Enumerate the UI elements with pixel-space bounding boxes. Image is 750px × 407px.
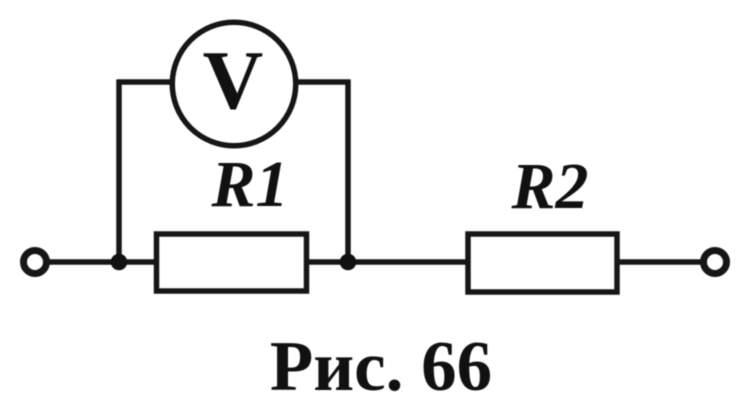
wire: R1 to R2 [306,259,469,265]
wire: top-right horizontal from voltmeter [290,79,350,85]
voltmeter U1 circle [172,22,296,146]
resistor R2 body [468,234,617,292]
wire: left terminal to R1 [49,259,157,265]
node: junction dot right (R1 right / voltmeter tap) [340,254,357,271]
resistor R1 body [157,234,307,291]
wire: R2 to right terminal [616,259,701,265]
wire: right vertical branch [345,80,351,263]
wire: top-left horizontal to voltmeter [117,79,180,85]
wire: left vertical branch [116,80,122,263]
svg-text:R2: R2 [510,150,588,223]
terminal: left input [24,251,47,274]
svg-text:V: V [203,34,264,127]
svg-text:R1: R1 [210,148,288,221]
node: junction dot left (R1 left / voltmeter tap) [111,254,128,271]
terminal: right output [704,251,727,274]
svg-text:Рис. 66: Рис. 66 [270,328,492,406]
